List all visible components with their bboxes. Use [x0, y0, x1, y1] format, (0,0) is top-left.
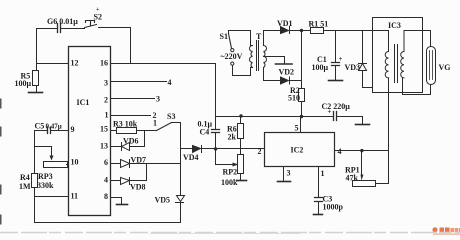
wire pin9 row / capacitor C5 0.47u — [51, 130, 69, 132]
diode VD1 — [281, 27, 289, 34]
svg-text:6: 6 — [104, 158, 108, 167]
wire middle column S3 to bottom — [180, 123, 182, 196]
svg-text:C5: C5 — [35, 122, 45, 131]
svg-text:T: T — [256, 32, 262, 41]
wire R3 to S3 pole — [138, 130, 157, 132]
svg-text:+: + — [339, 55, 343, 63]
svg-text:C4: C4 — [200, 128, 210, 137]
svg-text:G6 0.01μ: G6 0.01μ — [47, 17, 78, 26]
IC3 module box — [373, 18, 423, 93]
svg-text:VD4: VD4 — [183, 153, 199, 162]
svg-text:VD8: VD8 — [130, 183, 146, 192]
svg-text:+: + — [96, 7, 100, 13]
wire S3 contact stub to middle column — [172, 122, 181, 124]
node dot VD1/R1 — [300, 29, 303, 32]
capacitor G6 0.01u — [58, 24, 61, 33]
svg-text:100μ: 100μ — [15, 79, 32, 88]
wire pin3 row stub — [111, 81, 167, 83]
svg-text:VD2: VD2 — [279, 68, 295, 77]
secondary center tap to ground — [264, 57, 285, 64]
IC2 U2 box — [265, 133, 335, 167]
diode VD8 — [121, 178, 130, 185]
node dot bus/R6 — [239, 114, 242, 117]
wire pin4 row — [111, 180, 121, 182]
resistor R5 — [36, 64, 38, 71]
IC1 U1 box — [69, 47, 111, 216]
wire pin8 stub — [111, 198, 122, 205]
svg-text:VD7: VD7 — [131, 156, 147, 165]
svg-text:VG: VG — [439, 63, 451, 72]
wire junction R3 row to VD6 — [144, 131, 146, 147]
ground (IC2 pin3) — [278, 181, 291, 183]
svg-text:1: 1 — [321, 169, 325, 178]
scan artifacts left edge — [0, 99, 2, 225]
resistor R1 51 — [311, 28, 324, 34]
node dot R2/bus — [300, 115, 303, 118]
wire pin4 row — [335, 150, 389, 152]
svg-text:VD3: VD3 — [345, 63, 361, 72]
transformer T secondary winding — [264, 46, 267, 68]
wire VD6 to junction — [130, 146, 145, 148]
wire VD7 row to middle column — [130, 163, 181, 165]
diode VD7 — [121, 160, 130, 168]
wire RP1 right end up to IC3 drop — [376, 151, 389, 184]
switch S1 blade and contacts — [231, 49, 234, 52]
svg-text:R4: R4 — [20, 173, 30, 182]
node junction pin12 rail — [36, 29, 38, 64]
svg-text:R1 51: R1 51 — [309, 20, 329, 29]
transformer T core — [257, 41, 259, 71]
diode VD5 — [176, 196, 185, 203]
svg-text:1000p: 1000p — [323, 203, 344, 212]
svg-text:16: 16 — [100, 59, 108, 68]
capacitor C2 220u — [334, 112, 337, 121]
svg-text:3: 3 — [156, 95, 160, 104]
ground (RP2) — [237, 180, 247, 182]
svg-text:100μ: 100μ — [312, 63, 329, 72]
svg-text:4: 4 — [104, 176, 108, 185]
diode VD2 — [281, 77, 289, 84]
svg-text:100k: 100k — [221, 178, 238, 187]
wire bottom bus — [35, 222, 181, 224]
svg-text:3: 3 — [104, 79, 108, 88]
wire IC3 secondary bottom to lamp — [403, 78, 431, 95]
wire pin3 stub — [283, 167, 285, 181]
wire pin 12 row — [37, 63, 69, 65]
wire pin15 row — [111, 130, 117, 132]
svg-text:3: 3 — [287, 169, 291, 178]
diode VD4 — [193, 146, 201, 153]
svg-text:5: 5 — [295, 124, 299, 133]
svg-text:4: 4 — [168, 78, 172, 87]
svg-text:RP3: RP3 — [38, 172, 53, 181]
svg-text:15: 15 — [100, 125, 108, 134]
wire G6 to S2 — [61, 28, 85, 30]
ground (C2) — [356, 124, 370, 126]
resistor R4 1M — [32, 174, 38, 188]
diode VD3 — [362, 31, 364, 63]
wire IC3 primary bottom long drop — [388, 78, 390, 151]
svg-text:RP2: RP2 — [223, 168, 238, 177]
scan artifact bottom edge streak — [0, 232, 460, 234]
svg-text:8: 8 — [104, 192, 108, 201]
svg-text:VD5: VD5 — [155, 196, 171, 205]
resistor R2 510 — [299, 89, 305, 102]
capacitor C4 0.1u (vertical, in pin16 drop) — [215, 64, 217, 130]
potentiometer RP2 100k body — [238, 155, 244, 174]
ground (R5) — [29, 92, 43, 94]
wire pin16 row to C4 column — [111, 63, 216, 65]
wire pin11 row — [35, 196, 69, 198]
svg-text:2: 2 — [104, 96, 108, 105]
svg-text:12: 12 — [71, 59, 79, 68]
svg-text:+: + — [328, 108, 332, 116]
svg-text:0.47μ: 0.47μ — [46, 123, 62, 131]
node dot C4/VD4 row — [214, 147, 217, 150]
svg-text:IC2: IC2 — [291, 146, 304, 155]
svg-text:4: 4 — [338, 147, 342, 156]
ground (C3) — [314, 214, 323, 216]
svg-text:2k: 2k — [228, 133, 237, 142]
svg-text:10: 10 — [71, 158, 79, 167]
wire RP3 wiper — [35, 147, 52, 157]
svg-text:VD6: VD6 — [123, 137, 139, 146]
switch S3 blade — [157, 123, 172, 131]
wire VD2 output up to VD1 node and down to R2 — [301, 31, 303, 89]
resistor R6 2k — [240, 117, 242, 124]
switch S2 (pushbutton) — [85, 25, 97, 28]
wire 220V lower lead — [233, 66, 251, 76]
svg-text:1: 1 — [153, 119, 157, 128]
svg-text:C2 220μ: C2 220μ — [322, 102, 351, 111]
svg-text:13: 13 — [100, 142, 108, 151]
wire secondary top to VD1 — [264, 31, 281, 46]
ground (C1) — [329, 80, 343, 82]
svg-text:1M: 1M — [19, 182, 31, 191]
wire junction to RP2 wiper — [216, 149, 235, 165]
svg-text:VD1: VD1 — [277, 19, 293, 28]
svg-text:S2: S2 — [94, 13, 102, 22]
svg-text:IC1: IC1 — [77, 98, 90, 107]
wire S2 to corner, down to pin16 row — [99, 28, 131, 64]
svg-text:47k: 47k — [346, 174, 359, 183]
wire R1 to IC3 — [324, 30, 389, 32]
wire pin1 row stub — [111, 115, 151, 117]
svg-text:S1: S1 — [220, 32, 228, 41]
wire pin13 row — [111, 146, 121, 148]
wire top-left rail left segment — [37, 28, 58, 30]
wire pin5 stub — [300, 117, 302, 133]
resistor R3 10k — [117, 128, 137, 134]
svg-text:510: 510 — [288, 94, 300, 103]
wire RP3 to pin10 — [67, 164, 69, 166]
wire bus y116 — [216, 116, 334, 118]
watermark bottom right — [432, 227, 460, 235]
svg-text:IC3: IC3 — [388, 21, 401, 30]
diode VD6 — [122, 143, 130, 151]
svg-text:11: 11 — [71, 192, 79, 201]
wire VD4 row — [181, 148, 193, 150]
capacitor C1 100u — [335, 31, 337, 63]
potentiometer RP1 47k body — [353, 181, 376, 187]
svg-text:330k: 330k — [37, 181, 54, 190]
wire pin6 row — [111, 163, 121, 165]
wire left lower vertical — [34, 131, 36, 223]
node dot pin4/RP1 wiper — [360, 149, 363, 152]
svg-text:2: 2 — [258, 147, 262, 156]
svg-text:9: 9 — [71, 125, 75, 134]
IC3 primary winding — [385, 31, 388, 78]
potentiometer RP1 wiper — [361, 151, 363, 176]
wire secondary bottom to VD2 — [264, 68, 281, 81]
ground (pin 8) — [117, 204, 128, 206]
svg-text:S3: S3 — [167, 112, 175, 121]
wire pin2 row stub — [111, 98, 155, 100]
wire VD8 up to VD7 row — [130, 164, 147, 181]
lamp VG — [427, 47, 436, 85]
svg-text:1: 1 — [105, 111, 109, 120]
wire IC3 secondary top to lamp — [404, 31, 431, 52]
svg-text:~220V: ~220V — [221, 52, 243, 61]
transformer T primary winding — [250, 46, 253, 69]
wire pin1 stub / capacitor C3 1000p — [318, 167, 320, 198]
potentiometer RP3 330k body — [44, 162, 68, 168]
IC3 secondary winding — [401, 52, 404, 78]
IC3 core — [395, 45, 398, 83]
svg-text:R3 10k: R3 10k — [113, 120, 138, 129]
